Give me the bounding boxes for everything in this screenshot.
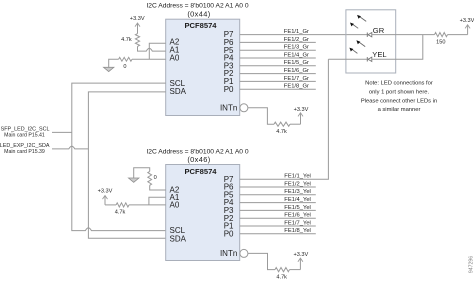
svg-text:INTn: INTn (220, 249, 237, 258)
wire U1 P0 net FE1/8_Gr (240, 84, 316, 90)
resistor 4.7k U2 INTn pull-up (275, 268, 290, 281)
svg-text:PCF8574: PCF8574 (184, 167, 217, 176)
svg-text:Main card P15.39: Main card P15.39 (4, 149, 45, 155)
svg-text:SDA: SDA (170, 235, 187, 244)
svg-text:FE1/3_Gr: FE1/3_Gr (284, 45, 309, 51)
svg-text:4.7k: 4.7k (115, 209, 126, 215)
svg-text:4.7k: 4.7k (121, 37, 132, 43)
power +3.3V (LED supply) (460, 18, 474, 35)
power +3.3V (U1 A1 pull-up) (130, 16, 145, 33)
power +3.3V (U2 INTn pull-up) (294, 252, 309, 270)
LED GR (green) (367, 26, 384, 37)
svg-text:FE1/8_Gr: FE1/8_Gr (284, 84, 309, 90)
ground (U1 address strap) (104, 67, 114, 71)
U2 INTn open-drain output bubble (240, 249, 248, 257)
I2C address label for U1 (146, 3, 249, 19)
power +3.3V (U2 A0/A1 pull-up) (98, 188, 113, 205)
svg-text:A0: A0 (170, 201, 180, 210)
svg-text:FE1/2_Yel: FE1/2_Yel (284, 181, 311, 187)
wire U1 P6 net FE1/2_Gr (240, 37, 316, 43)
I/O expander U1 PCF8574 (0x44) (166, 19, 240, 115)
svg-text:Please connect other LEDs in: Please connect other LEDs in (361, 98, 437, 104)
U1 INTn open-drain output bubble (240, 104, 248, 112)
svg-text:+3.3V: +3.3V (130, 16, 145, 22)
svg-text:FE1/5_Gr: FE1/5_Gr (284, 60, 309, 66)
wire SCL input stub (52, 131, 72, 133)
wire U1 P1 net FE1/7_Gr (240, 76, 316, 82)
wire U1 P7 net FE1/1_Gr to GR LED (240, 29, 368, 35)
wire U2 P2 net FE1/6_Yel (240, 213, 316, 219)
wire U2 P4 net FE1/4_Yel (240, 197, 316, 203)
svg-text:FE1/5_Yel: FE1/5_Yel (284, 205, 311, 211)
svg-text:FE1/4_Gr: FE1/4_Gr (284, 52, 309, 58)
wire U2 P6 net FE1/2_Yel (240, 181, 316, 187)
wire GR LED anode to resistor (372, 34, 435, 36)
svg-text:(0x46): (0x46) (187, 155, 210, 164)
svg-text:FE1/1_Yel: FE1/1_Yel (284, 174, 311, 180)
resistor 150 LED current limit (435, 33, 448, 46)
wire U1 P3 net FE1/5_Gr (240, 60, 316, 66)
YEL LED emission arrows (349, 40, 365, 53)
wire U2 P0 net FE1/8_Yel (240, 228, 316, 234)
svg-text:GR: GR (373, 26, 385, 35)
wire pull-up to +3.3V (290, 269, 301, 271)
svg-text:Note: LED connections for: Note: LED connections for (365, 80, 433, 86)
svg-text:FE1/7_Yel: FE1/7_Yel (284, 220, 311, 226)
svg-text:SFP_LED_I2C_SCL: SFP_LED_I2C_SCL (1, 126, 50, 132)
wire U1 P4 net FE1/4_Gr (240, 52, 316, 58)
wire 150 to +3.3V (448, 34, 468, 36)
wire strap U2 A1 to A0 (149, 197, 166, 205)
svg-text:FE1/8_Yel: FE1/8_Yel (284, 228, 311, 234)
wire 0-ohm to U2 A2 (150, 185, 166, 190)
svg-text:FE1/6_Yel: FE1/6_Yel (284, 213, 311, 219)
part number watermark (469, 256, 474, 273)
ground (U2 A2 strap) (129, 168, 150, 183)
resistor 4.7k U1 A1 pull-up (121, 34, 139, 47)
resistor 4.7k U1 INTn pull-up (274, 122, 290, 135)
svg-text:FE1/7_Gr: FE1/7_Gr (284, 76, 309, 82)
svg-text:0: 0 (154, 175, 157, 181)
svg-text:YEL: YEL (372, 50, 386, 59)
svg-text:INTn: INTn (220, 103, 237, 112)
wire U2 P3 net FE1/5_Yel (240, 205, 316, 211)
wire U2 P1 net FE1/7_Yel (240, 220, 316, 226)
wire SCL bus vertical (72, 83, 166, 231)
svg-text:+3.3V: +3.3V (460, 18, 474, 24)
node LED_EXP_I2C_SDA input (0, 143, 88, 155)
power +3.3V (U1 INTn pull-up) (294, 107, 309, 124)
wire YEL LED anode joining GR anode (372, 35, 423, 60)
note text (361, 80, 437, 113)
wire U1 P2 net FE1/6_Gr (240, 68, 316, 74)
svg-text:+3.3V: +3.3V (98, 188, 113, 194)
wire SDA input stub (hops over SCL) (52, 146, 88, 149)
wire U2 P7 net FE1/1_Yel up to YEL LED (240, 59, 329, 179)
wire U2 INTn to pull-up (248, 253, 275, 269)
wire YEL LED cathode into box (328, 58, 367, 60)
svg-text:FE1/1_Gr: FE1/1_Gr (284, 29, 309, 35)
resistor 0 ohm U1 A0/A2 to ground (119, 57, 132, 70)
svg-text:4.7k: 4.7k (276, 274, 287, 280)
wire SDA bus vertical (88, 92, 165, 238)
svg-text:FE1/2_Gr: FE1/2_Gr (284, 37, 309, 43)
I/O expander U2 PCF8574 (0x46) (166, 165, 240, 261)
svg-text:(0x44): (0x44) (187, 10, 210, 19)
wire 4.7k to U2 A0 (129, 204, 166, 206)
svg-text:SDA: SDA (170, 87, 187, 96)
wire +3.3V to 4.7k (105, 204, 116, 206)
svg-text:P0: P0 (224, 229, 234, 238)
svg-text:+3.3V: +3.3V (294, 107, 309, 113)
LED YEL (yellow) (367, 50, 386, 62)
resistor 4.7k U2 A0/A1 pull-up (115, 203, 129, 216)
GR LED emission arrows (350, 15, 366, 28)
wire strap U1 A2 to A0 (149, 43, 165, 59)
wire U1 INTn to pull-up (248, 108, 274, 124)
svg-text:0: 0 (123, 64, 126, 70)
svg-text:only 1 port shown here.: only 1 port shown here. (369, 89, 430, 95)
svg-text:FE1/4_Yel: FE1/4_Yel (284, 197, 311, 203)
wire pull-up to +3.3V (290, 123, 301, 125)
I2C address label for U2 (146, 148, 249, 164)
svg-text:a similar manner: a similar manner (378, 107, 421, 113)
svg-text:P0: P0 (224, 85, 234, 94)
wire 0-ohm to ground (109, 59, 119, 67)
node SFP_LED_I2C_SCL input (1, 126, 72, 138)
svg-text:FE1/6_Gr: FE1/6_Gr (284, 68, 309, 74)
svg-text:FE1/3_Yel: FE1/3_Yel (284, 189, 311, 195)
wire 4.7k to U1 A1 (hops over A2-A0 strap) (138, 46, 166, 51)
svg-text:947296: 947296 (469, 256, 474, 273)
LED module box (346, 10, 396, 73)
svg-text:A0: A0 (170, 53, 180, 62)
svg-text:150: 150 (436, 40, 445, 46)
wire U1 P5 net FE1/3_Gr (240, 45, 316, 51)
svg-text:4.7k: 4.7k (276, 129, 287, 135)
wire U2 P5 net FE1/3_Yel (240, 189, 316, 195)
svg-text:Main card P15.41: Main card P15.41 (4, 133, 45, 139)
svg-text:PCF8574: PCF8574 (184, 21, 217, 30)
resistor 0 ohm U2 A2 to ground (148, 171, 157, 185)
svg-text:+3.3V: +3.3V (294, 252, 309, 258)
wire U1 A0 to 0-ohm (132, 58, 166, 60)
